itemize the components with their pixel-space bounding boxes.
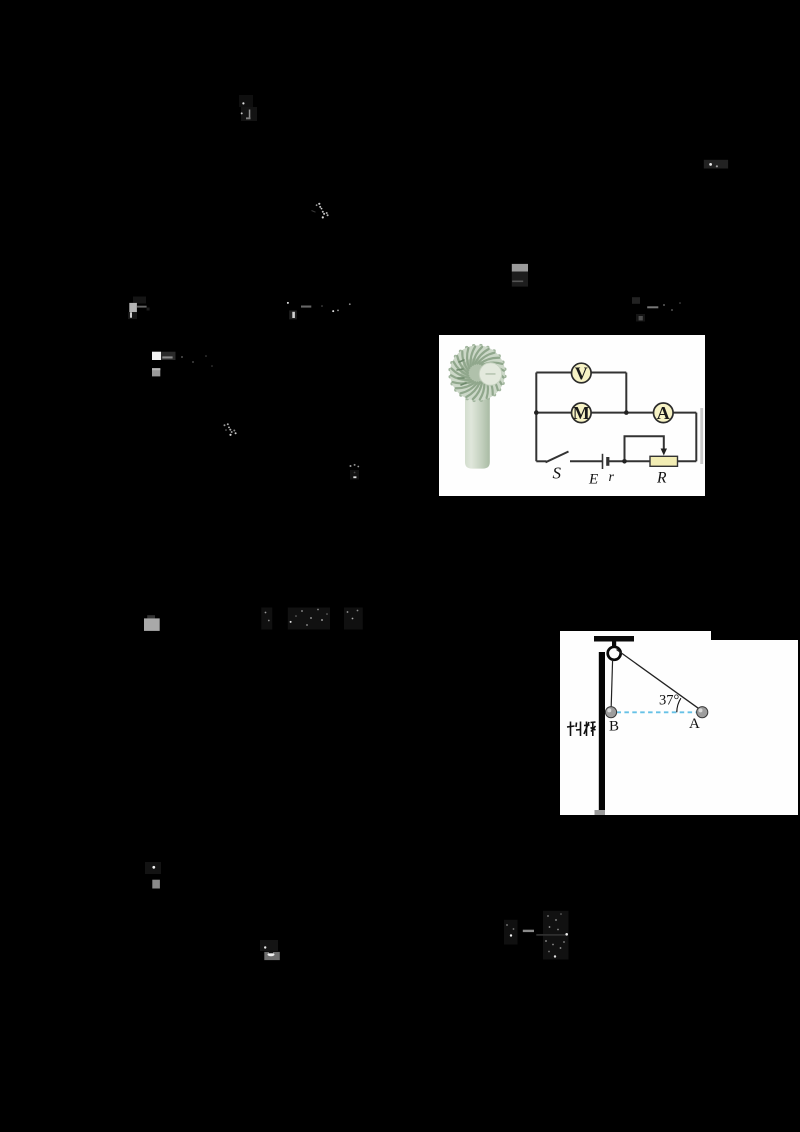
fragment with white dot lower left <box>145 862 161 889</box>
string vertical to ball B <box>611 660 612 707</box>
fragment with gray box bottom centre <box>260 940 280 960</box>
ball B <box>605 707 616 718</box>
fan head disc <box>450 345 505 400</box>
junction dot bottom <box>622 459 627 464</box>
battery E r plates <box>602 454 604 469</box>
pivot stem <box>612 642 616 649</box>
white background of figure <box>439 335 705 496</box>
ceiling bar <box>594 636 634 642</box>
baffle bar <box>599 652 605 810</box>
switch S blade <box>546 452 569 463</box>
gray scrollbar strip <box>700 408 703 464</box>
speck letter N lower <box>224 423 237 436</box>
speck letter N upper <box>312 203 329 219</box>
formula U fragment <box>350 464 360 480</box>
gray block fragment right of centre <box>512 264 528 287</box>
black notch top right <box>711 631 798 640</box>
fan brand text <box>486 373 496 375</box>
formula row mid page <box>261 608 363 630</box>
pendulum figure box <box>560 631 798 815</box>
ball A <box>697 707 708 718</box>
formula fragment right column <box>632 297 681 321</box>
formula F equals fragment <box>152 352 213 377</box>
gray block fragment left mid page <box>144 615 160 631</box>
fan handle <box>465 399 490 469</box>
wire: voltmeter right drop <box>625 373 627 413</box>
angle arc at A <box>677 698 681 712</box>
string diagonal to ball A <box>617 650 701 710</box>
pivot ring <box>608 647 621 660</box>
junction dot left <box>534 410 539 415</box>
wire: right vertical branch <box>695 413 697 462</box>
fan and circuit figure box <box>439 335 705 496</box>
motor M <box>572 403 592 423</box>
rheostat R slider loop wire <box>625 436 664 461</box>
formula r equals two R over three <box>504 911 569 960</box>
formula k equals fragment left <box>128 297 150 320</box>
fan center cap <box>479 363 501 385</box>
formula x equals fragment centre <box>287 302 351 320</box>
voltmeter V <box>572 363 592 383</box>
ammeter A <box>654 403 674 423</box>
wire: middle branch through motor <box>536 412 696 414</box>
wire: bottom branch <box>609 460 697 462</box>
fan motor shadows <box>457 360 466 385</box>
rheostat arrow head <box>661 449 667 456</box>
baffle bottom shadow <box>595 810 606 816</box>
label dangban (baffle) hand drawn strokes <box>567 722 596 737</box>
fan inner shade <box>461 359 488 386</box>
white background of figure <box>560 631 798 815</box>
formula fragment small text top right <box>704 160 728 169</box>
fan head rim bumps <box>448 344 506 402</box>
wire: left vertical branch <box>535 373 537 462</box>
formula fragment j-hat top <box>239 95 257 121</box>
rheostat R body <box>650 456 678 466</box>
fan blades <box>451 347 504 400</box>
wire: top branch through voltmeter <box>536 372 626 374</box>
junction dot middle <box>624 410 629 415</box>
dashed horizontal line B to A <box>617 711 698 713</box>
